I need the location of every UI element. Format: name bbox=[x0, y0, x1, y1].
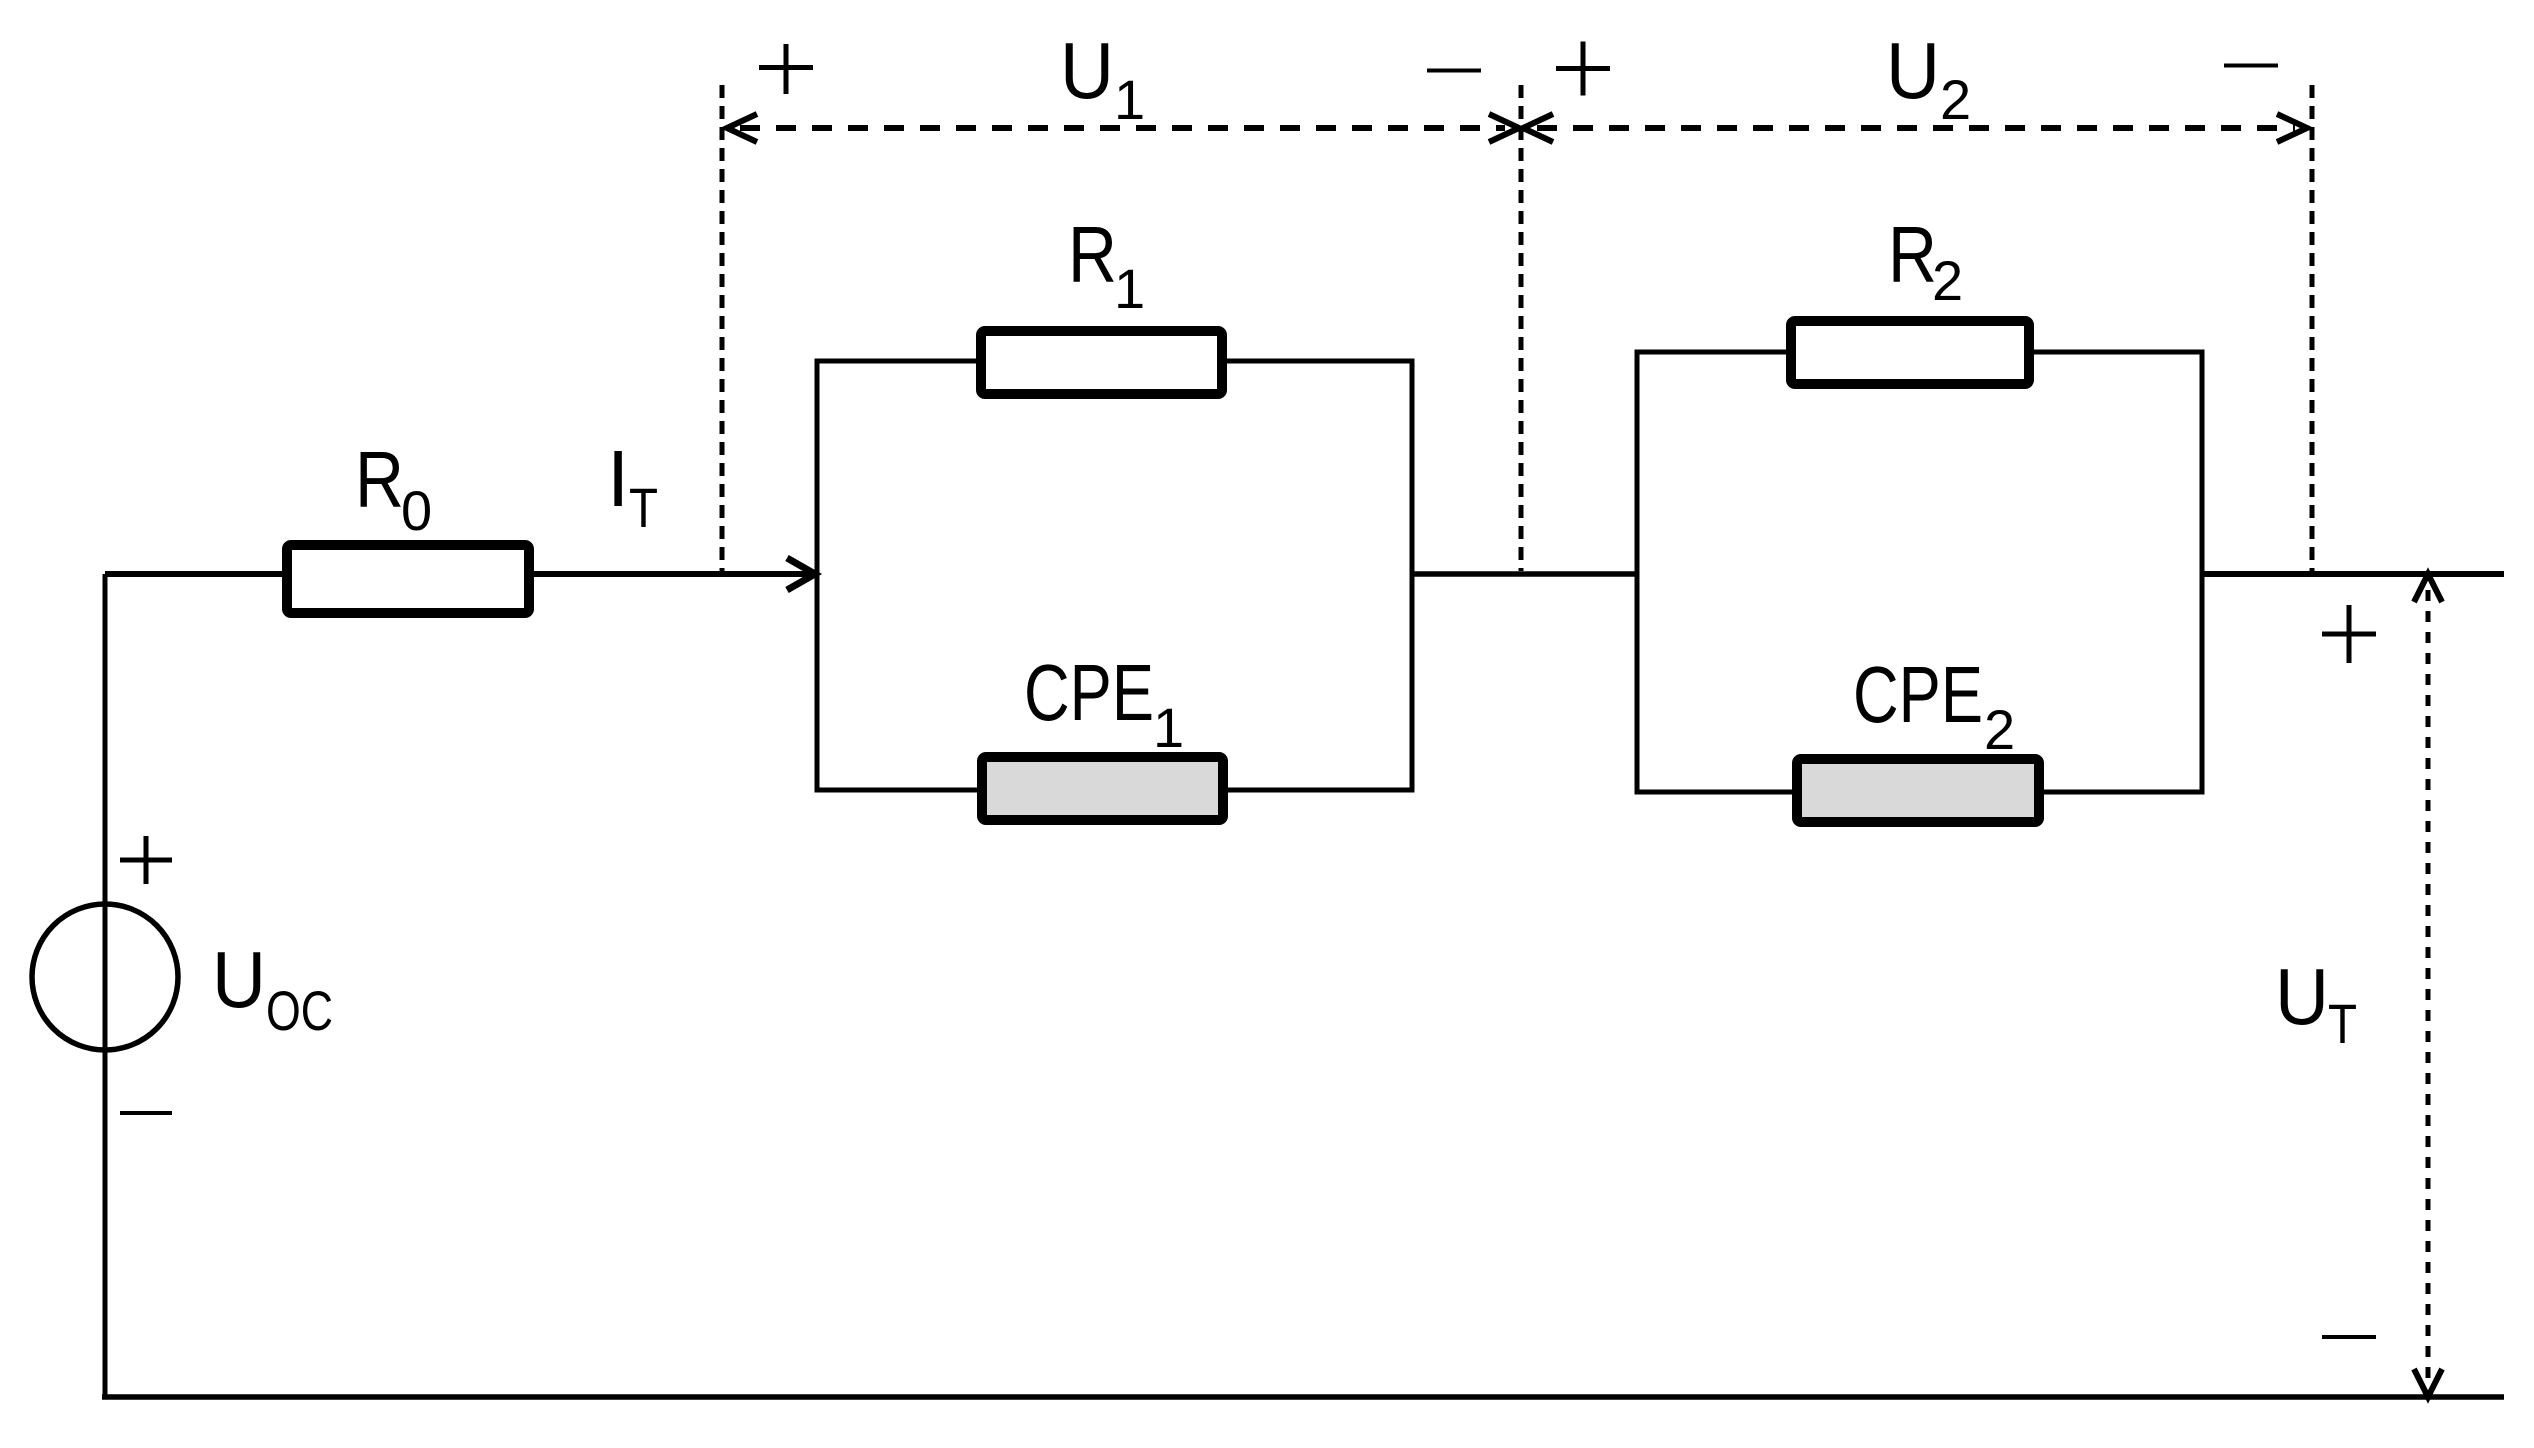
svg-text:R: R bbox=[1068, 210, 1117, 299]
svg-text:U: U bbox=[2275, 952, 2329, 1041]
svg-text:U: U bbox=[212, 935, 266, 1024]
svg-text:CPE: CPE bbox=[1024, 648, 1154, 737]
svg-text:U: U bbox=[1886, 26, 1940, 115]
svg-text:2: 2 bbox=[1984, 698, 2015, 761]
svg-text:OC: OC bbox=[266, 979, 333, 1042]
svg-text:1: 1 bbox=[1153, 696, 1184, 759]
svg-text:R: R bbox=[355, 435, 404, 524]
svg-text:1: 1 bbox=[1114, 257, 1145, 320]
svg-text:R: R bbox=[1888, 210, 1937, 299]
svg-text:CPE: CPE bbox=[1853, 650, 1983, 739]
svg-text:U: U bbox=[1060, 26, 1114, 115]
svg-text:T: T bbox=[629, 476, 658, 539]
svg-text:1: 1 bbox=[1114, 68, 1145, 131]
svg-text:0: 0 bbox=[401, 479, 432, 542]
svg-text:2: 2 bbox=[1940, 68, 1971, 131]
svg-text:I: I bbox=[607, 434, 629, 523]
svg-text:T: T bbox=[2328, 992, 2357, 1055]
svg-text:2: 2 bbox=[1932, 249, 1963, 312]
